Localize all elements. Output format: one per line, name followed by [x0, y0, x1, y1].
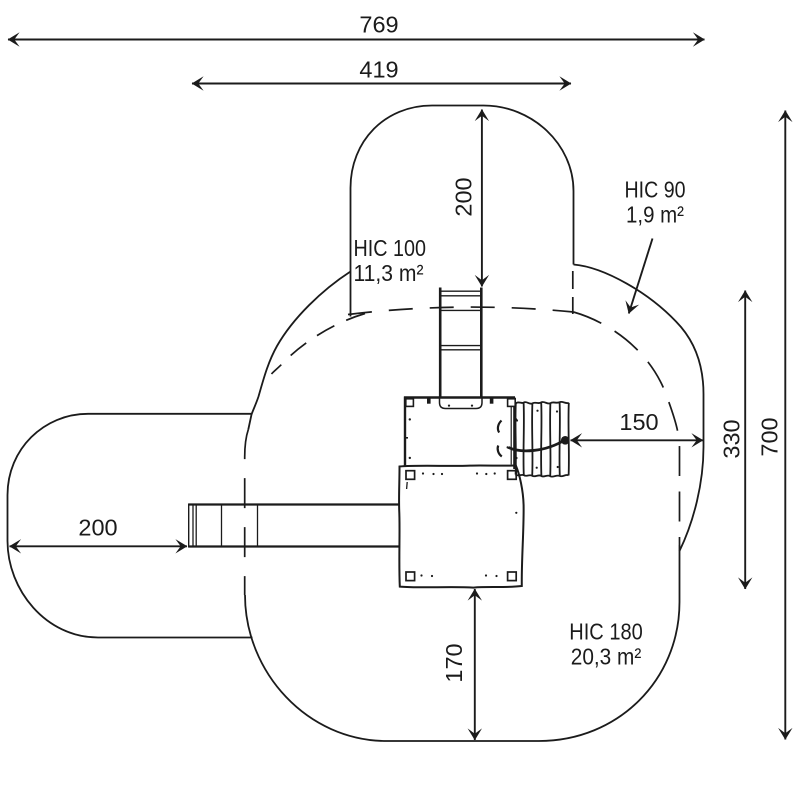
- upper platform right edge inner: [510, 398, 512, 465]
- slide bottom edge: [189, 545, 400, 547]
- climber cord: [509, 440, 566, 451]
- lower platform corner square TL: [406, 471, 415, 480]
- svg-text:20,3 m²: 20,3 m²: [571, 644, 642, 670]
- svg-text:200: 200: [451, 177, 477, 216]
- ladder rung 4: [440, 345, 481, 347]
- upper platform top edge tick 2: [490, 399, 494, 404]
- lower platform dot middle right: [515, 512, 517, 514]
- upper platform dot 1: [409, 418, 411, 420]
- HIC 180 top edge dashed: [348, 307, 574, 314]
- upper platform top edge: [404, 396, 515, 399]
- slide cap double line: [192, 505, 194, 547]
- lower platform dots bottom row: [420, 574, 422, 576]
- ladder rung 5: [440, 349, 481, 351]
- svg-text:HIC 180: HIC 180: [569, 619, 643, 645]
- ladder rung 2: [440, 295, 481, 297]
- dimension 150 line: [571, 439, 704, 441]
- HIC 180 left edge dashed: [245, 430, 249, 596]
- slide left cap: [188, 504, 190, 548]
- lower platform corner square BL: [406, 572, 415, 581]
- svg-text:HIC 100: HIC 100: [354, 235, 427, 261]
- climber dots: [536, 410, 538, 412]
- svg-text:170: 170: [441, 643, 467, 682]
- upper platform top edge tick 1: [427, 399, 431, 404]
- svg-text:330: 330: [719, 419, 745, 458]
- HIC 100 lower-left arc: [248, 272, 350, 430]
- lower platform outline: [399, 465, 524, 587]
- dimension 330 vertical line: [744, 291, 746, 590]
- HIC 100 right edge dashed: [572, 271, 574, 314]
- HIC 180 top-right corner dashed: [574, 312, 680, 545]
- upper platform crescent 2: [498, 446, 502, 457]
- svg-text:419: 419: [359, 57, 398, 83]
- svg-text:769: 769: [359, 12, 398, 38]
- ladder left rail: [439, 288, 442, 398]
- dimension 700 vertical line: [784, 111, 786, 740]
- upper platform right edge outer: [513, 398, 515, 470]
- lower platform corner square TR: [508, 471, 517, 480]
- ladder rung 3: [440, 309, 481, 311]
- dimension 419 line: [192, 83, 571, 85]
- HIC 180 solid boundary bottom: [245, 545, 680, 741]
- dimension 200 top vertical line: [481, 110, 483, 287]
- svg-text:HIC 90: HIC 90: [625, 177, 686, 203]
- climber cord end dot: [561, 436, 570, 445]
- dimension 200 left line: [10, 545, 188, 547]
- ladder rung 1: [440, 290, 481, 292]
- notch dot 1: [448, 405, 450, 407]
- climber top edge: [516, 402, 569, 404]
- HIC 100 dome outline: [351, 106, 574, 317]
- slide divider 2: [257, 505, 259, 547]
- slide divider 1: [221, 505, 223, 547]
- slide top edge: [189, 503, 400, 505]
- lower platform corner square BR: [508, 572, 517, 581]
- dimension 769 line: [8, 39, 705, 41]
- upper platform dot 4: [515, 418, 517, 420]
- climber bottom edge: [516, 475, 569, 477]
- lower platform tick below TL square: [406, 482, 409, 489]
- upper platform left edge tick: [404, 437, 408, 439]
- notch dot 2: [471, 405, 473, 407]
- lower platform dots top row: [422, 472, 424, 474]
- climber slats: [514, 404, 516, 475]
- upper platform corner square TL: [406, 399, 414, 407]
- upper platform dot 3: [507, 446, 509, 448]
- svg-text:700: 700: [757, 417, 783, 456]
- HIC 90 zone boundary: [574, 265, 704, 552]
- svg-text:200: 200: [78, 515, 117, 541]
- upper platform corner square TR: [508, 399, 516, 407]
- left lobe outline: [8, 414, 253, 638]
- upper platform entry notch: [440, 398, 483, 409]
- svg-text:11,3 m²: 11,3 m²: [354, 260, 424, 286]
- HIC 180 top-left corner dashed: [272, 314, 366, 375]
- upper platform dot 2: [409, 457, 411, 459]
- svg-text:150: 150: [619, 409, 658, 435]
- HIC 90 pointer arrow: [629, 239, 653, 314]
- upper platform left edge: [404, 397, 406, 466]
- svg-text:1,9 m²: 1,9 m²: [626, 202, 684, 228]
- dimension 170 vertical line: [474, 589, 476, 740]
- upper platform crescent 1: [498, 421, 502, 433]
- ladder right rail: [480, 288, 483, 398]
